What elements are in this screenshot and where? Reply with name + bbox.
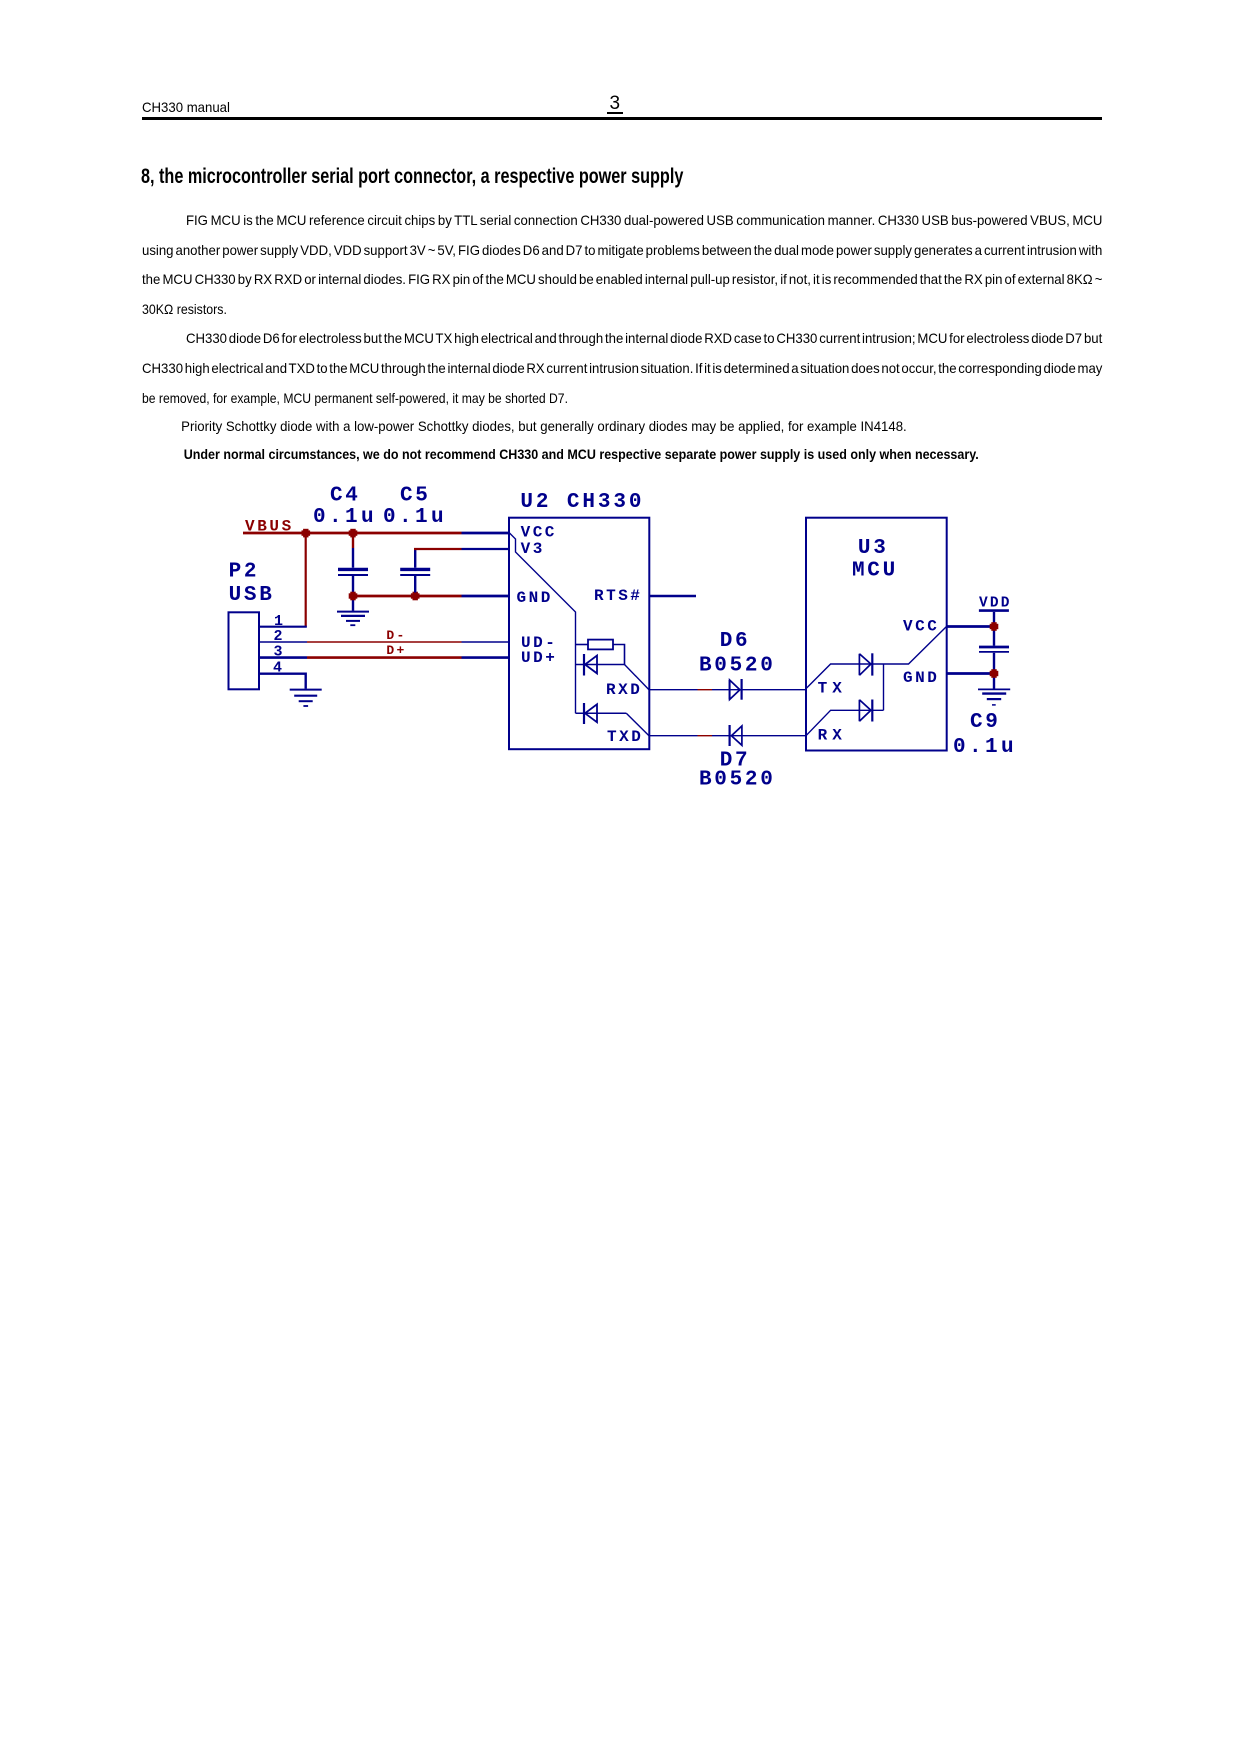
ground symbol below C4 [337, 612, 369, 626]
svg-text:GND: GND [903, 669, 939, 687]
U2 internal diode on RXD [576, 654, 625, 676]
svg-text:P2: P2 [229, 560, 260, 583]
U2 internal diagonal to TXD pin [626, 713, 649, 735]
wire RXD net (red segment) [698, 689, 713, 691]
wire RXD net (blue left) [650, 689, 698, 691]
wire C5 to U2 V3 pin (blue segment) [462, 548, 510, 550]
wire VBUS drop to P2 pin 1 [305, 533, 307, 627]
svg-text:RX: RX [818, 727, 847, 745]
svg-text:V3: V3 [521, 540, 545, 558]
wire GND net to U2 GND pin (blue segment) [462, 595, 510, 598]
wire P2 pin 3 to D+ (blue) [260, 656, 308, 659]
wire RXD net to D6 and MCU TX (blue) [712, 689, 806, 691]
junction GND / C5 [411, 592, 420, 601]
IC U2 CH330 body [509, 518, 649, 750]
capacitor C5 [400, 548, 430, 593]
wire D- to U2 UD- pin (blue) [462, 641, 510, 643]
junction C9 / U3 GND [990, 669, 999, 678]
svg-text:0.1u: 0.1u [383, 506, 447, 529]
U3 internal diode on RX [859, 700, 872, 722]
wire TXD net (red segment) [698, 735, 713, 737]
svg-text:B0520: B0520 [699, 769, 776, 792]
wire P2 pin 4 stub and drop [260, 674, 306, 689]
junction GND / C4 [349, 592, 358, 601]
svg-text:RTS#: RTS# [594, 587, 642, 605]
svg-text:MCU: MCU [852, 559, 898, 582]
U2 internal power rail [510, 533, 576, 713]
svg-text:0.1u: 0.1u [313, 506, 377, 529]
wire TXD net to D7 and MCU RX (blue) [712, 735, 806, 737]
wire P2 pin 1 stub [260, 626, 307, 628]
junction VDD / U3 VCC [990, 622, 999, 631]
svg-text:VCC: VCC [903, 618, 939, 636]
wire D- net (red) [307, 641, 462, 643]
svg-text:D-: D- [386, 628, 406, 643]
ground symbol below P2 [290, 690, 322, 706]
svg-text:C4: C4 [330, 485, 361, 508]
svg-text:C9: C9 [970, 711, 1001, 734]
svg-text:GND: GND [517, 589, 553, 607]
wire C5 to U2 V3 pin (red segment) [414, 548, 462, 550]
diode D6 [730, 679, 742, 700]
junction VBUS / C4 [349, 529, 358, 538]
wire U3 GND pin to C9/ground [947, 672, 992, 675]
wire VDD stem [993, 612, 995, 646]
junction VBUS / pin1 drop [302, 529, 311, 538]
U3 internal link between diode rows [883, 664, 885, 710]
connector P2 body [229, 612, 260, 689]
svg-text:0.1u: 0.1u [953, 736, 1017, 759]
svg-text:UD+: UD+ [521, 649, 557, 667]
wire GND net (red segment) [353, 595, 462, 598]
U2 internal pull-up resistor [576, 640, 625, 665]
IC U3 MCU body [806, 518, 947, 751]
svg-text:D6: D6 [720, 630, 751, 653]
svg-text:B0520: B0520 [699, 655, 776, 678]
wire TXD net (blue left) [650, 735, 698, 737]
svg-text:VCC: VCC [521, 524, 557, 542]
wire D+ net (red) [307, 656, 462, 659]
capacitor C9 [979, 647, 1009, 689]
wire U3 VCC pin to VDD [947, 625, 992, 628]
wire RTS# stub [650, 595, 696, 597]
wire VBUS to U2 VCC pin (blue segment) [462, 532, 510, 535]
U2 internal diagonal to RXD pin [625, 665, 650, 690]
svg-text:U3: U3 [858, 537, 889, 560]
U3 internal diode on TX [859, 653, 872, 675]
svg-text:U2 CH330: U2 CH330 [520, 491, 644, 514]
svg-text:USB: USB [229, 584, 275, 607]
svg-text:TXD: TXD [607, 728, 643, 746]
U3 internal TX path [806, 627, 947, 689]
capacitor C4 [338, 533, 368, 611]
wire D+ to U2 UD+ pin (blue) [462, 656, 510, 659]
svg-text:C5: C5 [400, 485, 431, 508]
U3 internal RX path [806, 710, 884, 735]
U2 internal diode on TXD [576, 703, 627, 724]
wire P2 pin 2 to D- (blue) [260, 641, 308, 643]
diode D7 [730, 725, 742, 746]
ground symbol below C9 [978, 689, 1010, 705]
power symbol VDD bar [979, 609, 1009, 612]
svg-text:RXD: RXD [606, 681, 642, 699]
svg-text:D+: D+ [386, 643, 406, 658]
svg-text:TX: TX [818, 680, 847, 698]
wire VBUS net (red segment) [243, 532, 462, 535]
